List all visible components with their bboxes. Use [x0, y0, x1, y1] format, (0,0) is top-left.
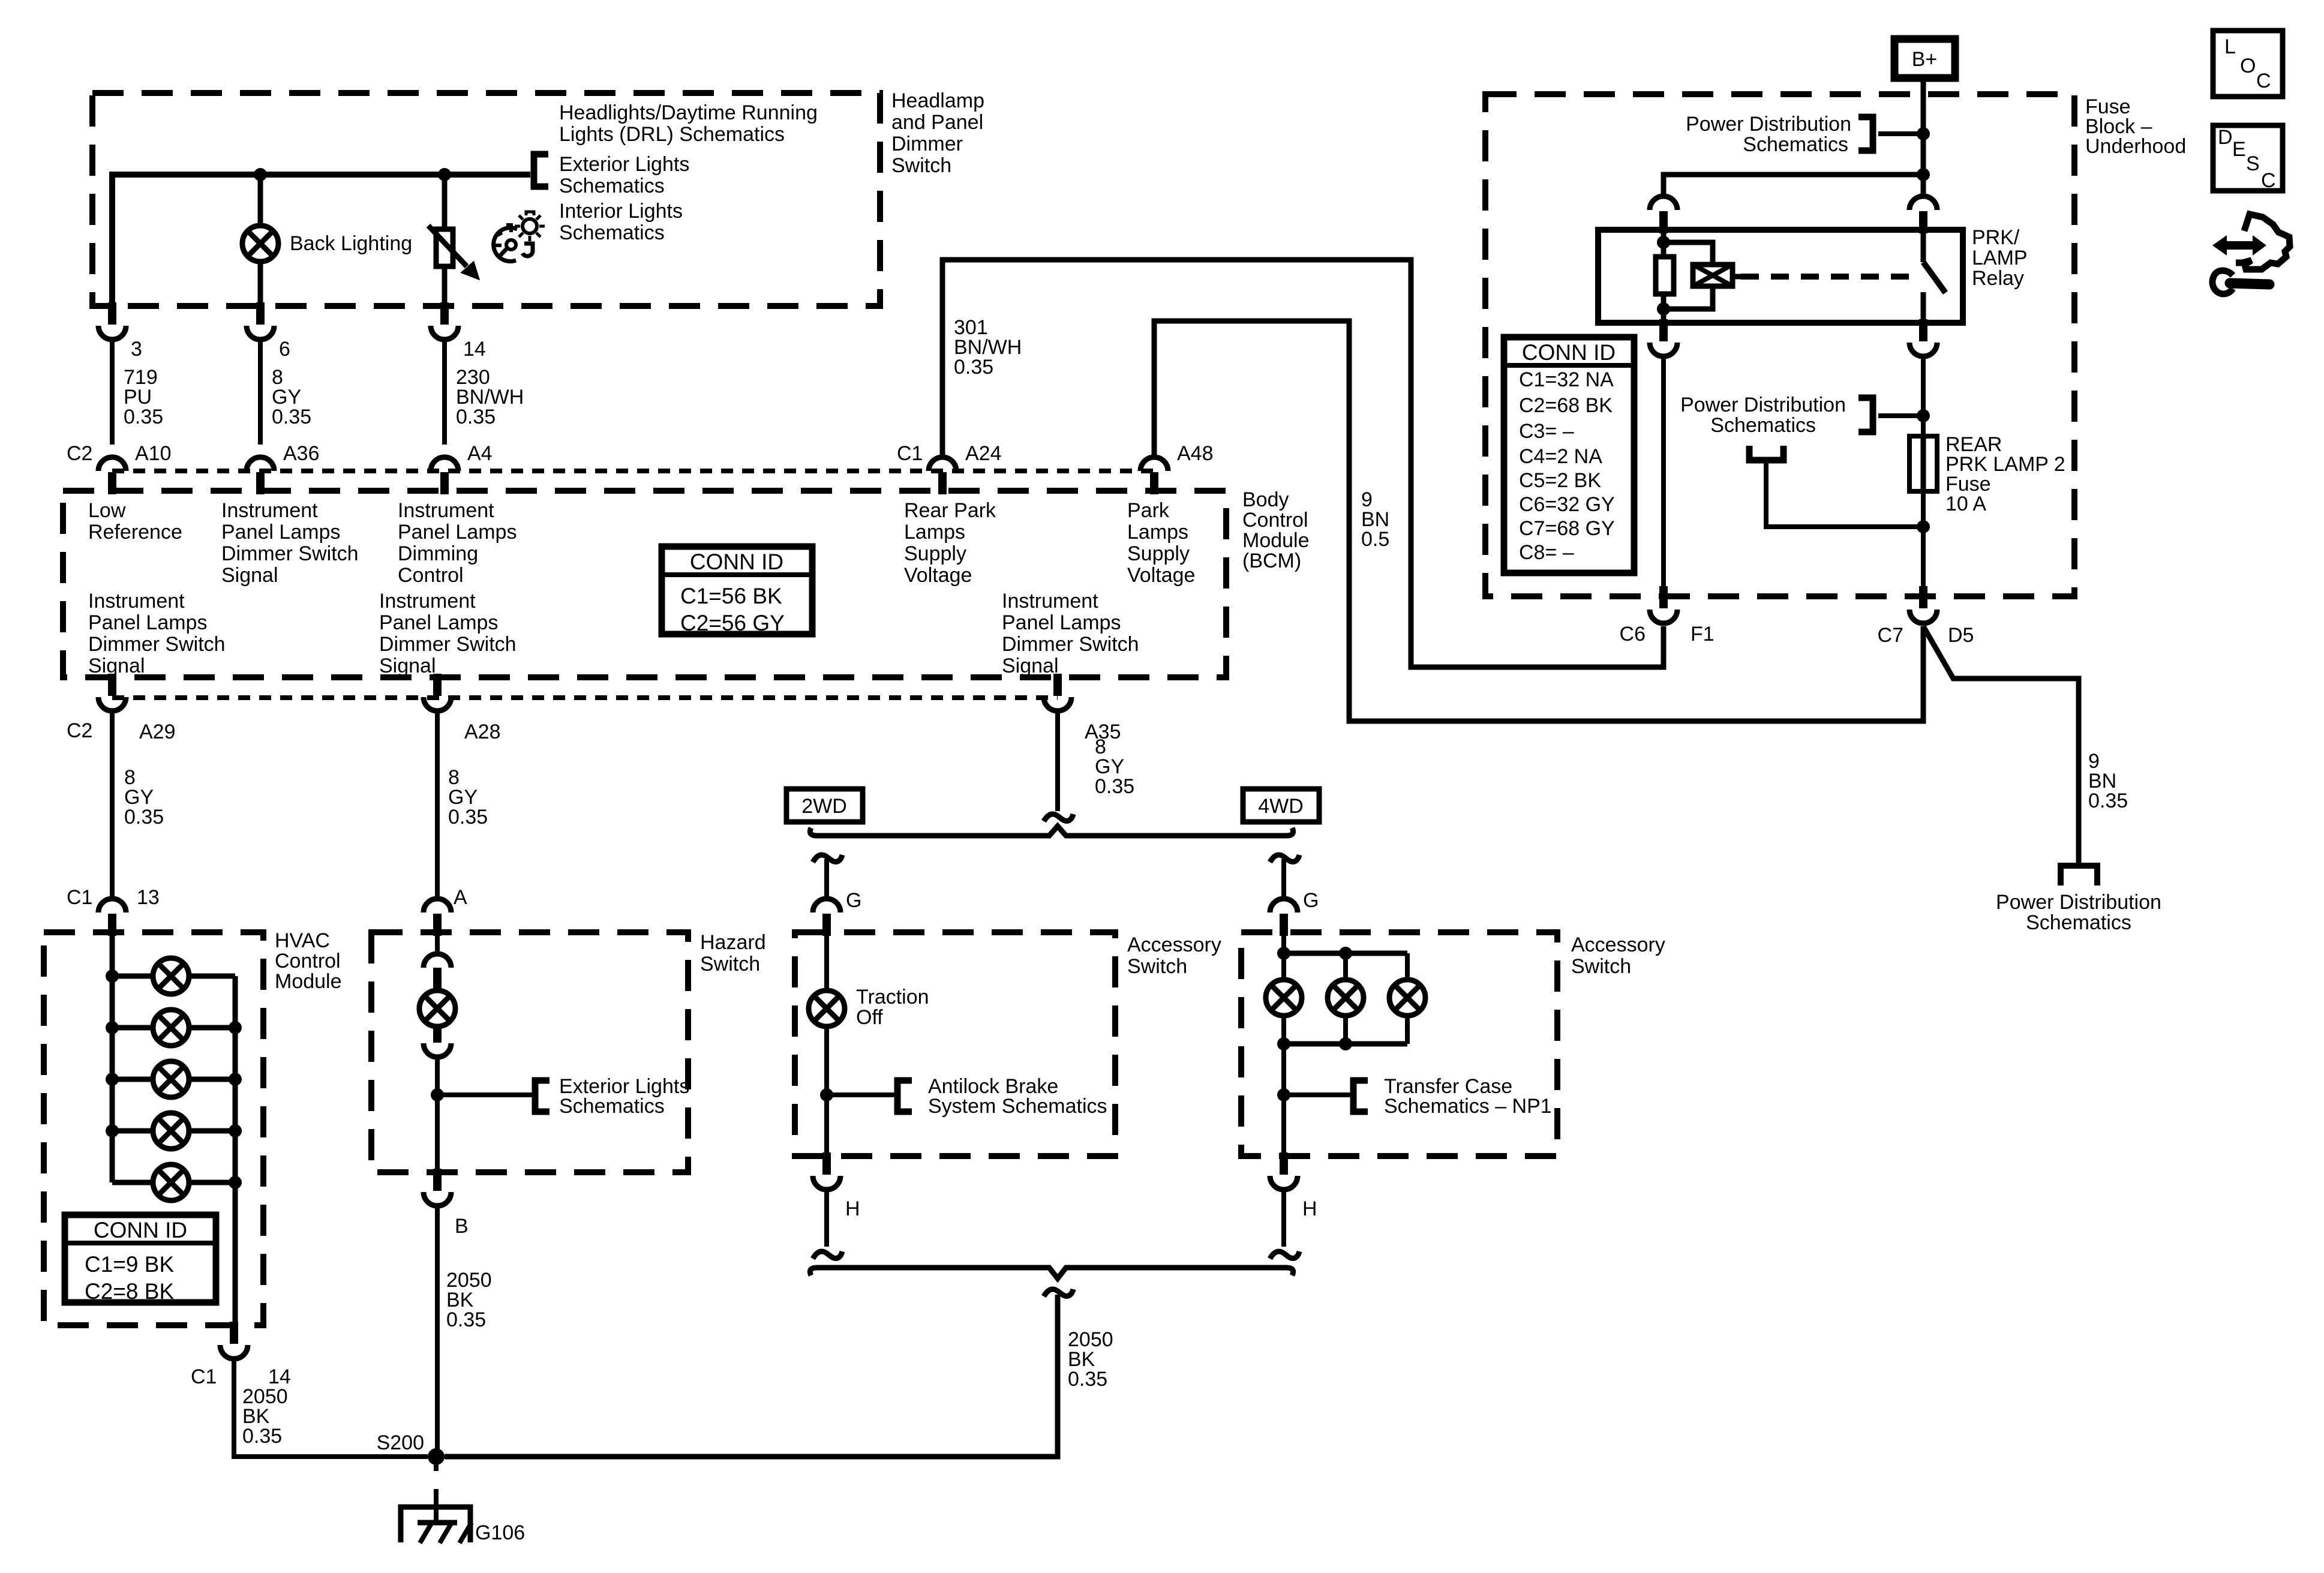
icon: instrument cluster gauge and bulb: [494, 228, 517, 262]
wire: 2WD branch to G: [824, 859, 829, 898]
relay box: PRK/LAMP Relay: [1598, 230, 1963, 323]
lamp: hazard switch backlight: [419, 990, 455, 1026]
ground G106: [401, 1507, 470, 1542]
node: HVAC left bus: [106, 1124, 119, 1137]
svg-text:C2=8 BK: C2=8 BK: [85, 1279, 174, 1304]
node: 4WD bottom bus a: [1277, 1037, 1290, 1050]
rheostat: panel dimming: [436, 229, 453, 266]
wire: tap to antilock bracket: [827, 1092, 894, 1097]
svg-text:Low: Low: [88, 499, 126, 522]
svg-text:0.35: 0.35: [2088, 789, 2128, 812]
svg-text:(BCM): (BCM): [1242, 550, 1301, 572]
svg-text:0.35: 0.35: [272, 406, 311, 428]
svg-text:Off: Off: [856, 1006, 883, 1029]
dashed box: Body Control Module (BCM): [63, 491, 1226, 677]
svg-text:Back Lighting: Back Lighting: [290, 232, 412, 255]
svg-text:Headlights/Daytime Running: Headlights/Daytime Running: [559, 101, 818, 124]
icon box: LOC: [2213, 31, 2283, 97]
svg-text:G106: G106: [475, 1521, 525, 1544]
svg-text:Headlamp: Headlamp: [891, 89, 984, 112]
wire: tap to power distribution bracket 1: [1878, 131, 1923, 136]
wire: HVAC left lamp bus: [110, 932, 115, 1182]
wire: 2050 BK (hazard B to S200): [435, 1208, 440, 1457]
node: power distribution tap 1: [1917, 127, 1930, 140]
svg-text:E: E: [2232, 138, 2246, 161]
svg-text:Voltage: Voltage: [1127, 564, 1195, 587]
svg-text:C1: C1: [897, 442, 923, 465]
svg-text:S200: S200: [377, 1431, 424, 1454]
svg-text:2WD: 2WD: [801, 795, 847, 818]
svg-text:A28: A28: [464, 721, 501, 743]
wire: HVAC lamp rung 2: [112, 1025, 153, 1031]
svg-text:O: O: [2240, 55, 2256, 77]
wire: 8 GY (A29 to HVAC C1-13): [110, 713, 115, 898]
wire: 4WD lamps top bus: [1281, 936, 1286, 980]
svg-text:PRK/: PRK/: [1972, 226, 2020, 249]
wire: HVAC lamp rung 1: [112, 974, 153, 979]
connector: dimmer switch pin 6: [256, 302, 265, 325]
lamp: Traction Off: [809, 990, 845, 1026]
connector: hazard bulb socket top: [424, 954, 451, 968]
wire: 9 BN 0.5 (A48 to fuse block C7): [1154, 321, 1923, 721]
svg-text:Schematics: Schematics: [1710, 414, 1816, 437]
connector: BCM terminal A48: [1150, 472, 1158, 494]
svg-text:Dimming: Dimming: [398, 542, 478, 565]
lamp: HVAC backlight 4: [153, 1113, 189, 1149]
svg-text:14: 14: [463, 338, 486, 361]
svg-text:Accessory: Accessory: [1571, 933, 1665, 956]
fork: to Power Distribution Schematics: [2061, 866, 2097, 885]
dashed box: Headlamp and Panel Dimmer Switch: [92, 93, 880, 306]
svg-text:CONN ID: CONN ID: [690, 550, 783, 574]
svg-text:Schematics: Schematics: [559, 221, 665, 244]
svg-text:Control: Control: [398, 564, 464, 587]
table: CONN ID (fuse block): [1504, 337, 1634, 573]
wire: traction off lamp feed: [824, 936, 829, 990]
node: HVAC right bus: [229, 1124, 242, 1137]
wire: HVAC lamp rung 4: [112, 1128, 153, 1134]
svg-text:G: G: [1303, 889, 1319, 912]
symbol: B+ battery feed: [1894, 39, 1955, 78]
wire: lamp to pin 6: [258, 262, 263, 306]
wire: relay coil internal top: [1661, 230, 1667, 257]
connector: BCM terminal A4: [440, 472, 449, 494]
node: 4WD bottom bus b: [1339, 1037, 1352, 1050]
svg-text:Switch: Switch: [700, 953, 760, 975]
svg-text:Dimmer Switch: Dimmer Switch: [88, 633, 226, 656]
svg-text:Schematics: Schematics: [559, 175, 665, 197]
switch: relay contact: [1921, 230, 1926, 262]
connector: accessory switch H (4WD): [1280, 1152, 1288, 1175]
svg-text:Supply: Supply: [904, 542, 966, 565]
off-page bracket: Power Distribution Schematics 3: [1749, 446, 1783, 460]
svg-text:A10: A10: [135, 442, 172, 465]
table: CONN ID (BCM): [662, 547, 812, 634]
svg-text:Panel Lamps: Panel Lamps: [379, 611, 498, 634]
svg-text:Panel Lamps: Panel Lamps: [1002, 611, 1121, 634]
svg-text:Control: Control: [1242, 509, 1308, 532]
wire: relay coil to C6: [1661, 358, 1666, 586]
wire: relay coil feed: [1664, 175, 1923, 196]
svg-text:C3= –: C3= –: [1519, 420, 1574, 443]
node: antilock brake tap: [820, 1088, 833, 1101]
svg-text:Dimmer: Dimmer: [891, 133, 963, 155]
svg-text:C1=9 BK: C1=9 BK: [85, 1252, 174, 1277]
svg-text:13: 13: [137, 886, 160, 909]
node: bus to back lighting lamp: [254, 168, 267, 181]
wire: rheostat to pin 14: [442, 266, 448, 306]
svg-text:Interior Lights: Interior Lights: [559, 200, 683, 223]
connector: relay switch terminal top: [1919, 211, 1927, 233]
svg-text:0.35: 0.35: [446, 1308, 486, 1331]
node: HVAC left bus: [106, 1021, 119, 1034]
node: HVAC right bus: [229, 1176, 242, 1189]
svg-text:CONN ID: CONN ID: [1522, 340, 1616, 365]
svg-text:HVAC: HVAC: [275, 929, 330, 952]
svg-text:Dimmer Switch: Dimmer Switch: [1002, 633, 1139, 656]
icon: navigate arrows and wrench: [2212, 235, 2266, 256]
wire: tap to power distribution bracket 2: [1878, 413, 1923, 418]
svg-text:Panel Lamps: Panel Lamps: [398, 521, 517, 544]
svg-text:0.5: 0.5: [1361, 528, 1389, 551]
resistor: relay coil suppression: [1656, 257, 1674, 294]
svg-text:A24: A24: [965, 442, 1002, 465]
svg-text:Power Distribution: Power Distribution: [1686, 113, 1851, 136]
svg-text:Signal: Signal: [88, 655, 145, 677]
node: 4WD top bus a: [1277, 947, 1290, 960]
lamp: HVAC backlight 1: [153, 958, 189, 994]
wire: hazard lamp feed: [435, 936, 440, 955]
node: transfer case tap: [1277, 1088, 1290, 1101]
svg-text:Dimmer Switch: Dimmer Switch: [221, 542, 359, 565]
dashed actuator link: [1741, 274, 1917, 280]
off-page bracket: Power Distribution Schematics 2: [1858, 398, 1873, 432]
connector: BCM terminal A24: [938, 472, 947, 494]
wire: H to merge brace (2WD): [824, 1191, 829, 1247]
svg-text:C: C: [2256, 70, 2271, 92]
option split brace: [810, 826, 1293, 836]
svg-text:0.35: 0.35: [1068, 1368, 1107, 1391]
wire: solenoid loop: [1664, 242, 1713, 265]
off-page bracket: Exterior Lights Schematics: [534, 154, 548, 187]
wire: 301 BN/WH (A24 to PRK/LAMP relay coil): [942, 260, 1664, 667]
svg-text:Schematics: Schematics: [559, 1095, 665, 1118]
svg-text:6: 6: [279, 338, 290, 361]
svg-text:Schematics – NP1: Schematics – NP1: [1384, 1095, 1552, 1118]
svg-text:10 A: 10 A: [1945, 493, 1986, 515]
dashed box: Fuse Block - Underhood: [1485, 94, 2074, 596]
dotted connector line C1/C2 top: [112, 469, 1154, 473]
svg-text:C2=68 BK: C2=68 BK: [1519, 394, 1613, 417]
connector: BCM terminal A10: [108, 472, 116, 494]
wire: relay switch to fuse: [1921, 358, 1926, 436]
lamp: 4WD indicator 2: [1328, 980, 1364, 1016]
off-page bracket: Antilock Brake System Schematics: [897, 1080, 912, 1112]
svg-text:C6=32 GY: C6=32 GY: [1519, 493, 1615, 516]
wire: tap to transfer case bracket: [1284, 1092, 1350, 1097]
node: power distribution tap 2: [1917, 409, 1930, 422]
svg-text:Reference: Reference: [88, 521, 182, 544]
svg-text:B: B: [455, 1215, 469, 1238]
wire: C7 branch to power distribution: [1923, 626, 2079, 866]
node: fuse output tap: [1917, 520, 1930, 533]
wire: bracket 3 to fuse output: [1766, 460, 1923, 527]
svg-text:Relay: Relay: [1972, 267, 2024, 290]
dashed box: Accessory Switch (4WD): [1241, 932, 1557, 1156]
connector: accessory switch G (2WD): [822, 914, 831, 936]
svg-text:Exterior Lights: Exterior Lights: [559, 153, 689, 176]
wire: HVAC right lamp bus: [233, 976, 238, 1322]
node: relay coil feed tap: [1917, 168, 1930, 181]
node: relay coil node top: [1657, 236, 1670, 249]
svg-text:Instrument: Instrument: [88, 590, 185, 613]
wire: rheostat drop: [442, 175, 448, 229]
connector: HVAC C1 pin 13: [108, 914, 116, 936]
tag box: 2WD: [786, 789, 863, 822]
wire: 2050 BK (HVAC to S200): [234, 1361, 428, 1457]
wire: 8 GY (A28 to hazard switch A): [435, 713, 440, 898]
squiggle: 4WD branch: [1270, 855, 1299, 862]
connector: BCM terminal A36: [256, 472, 265, 494]
svg-text:Park: Park: [1127, 499, 1170, 522]
svg-text:Voltage: Voltage: [904, 564, 972, 587]
wire: dimmer switch internal bus: [112, 175, 530, 306]
wire: solenoid actuator stub: [1733, 274, 1741, 280]
wire: 2050 BK (brace to S200): [445, 1295, 1058, 1457]
fuse: REAR PRK LAMP 2 10A: [1909, 436, 1937, 491]
wire: circuit 8 GY: [258, 341, 263, 445]
svg-text:C8= –: C8= –: [1519, 541, 1574, 564]
connector: hazard switch terminal A: [433, 914, 442, 936]
svg-text:0.35: 0.35: [954, 356, 993, 379]
connector: dimmer switch pin 14: [440, 302, 449, 325]
wire: relay coil internal bottom: [1661, 294, 1667, 323]
connector: fuse block C6 / relay F1: [1659, 586, 1668, 608]
svg-text:C2=56 GY: C2=56 GY: [680, 611, 785, 635]
svg-text:C4=2 NA: C4=2 NA: [1519, 445, 1602, 468]
tag box: 4WD: [1243, 789, 1319, 822]
svg-text:A4: A4: [467, 442, 493, 465]
lamp: HVAC backlight 2: [153, 1010, 189, 1046]
svg-text:Panel Lamps: Panel Lamps: [221, 521, 340, 544]
svg-text:Dimmer Switch: Dimmer Switch: [379, 633, 517, 656]
svg-text:Module: Module: [1242, 529, 1310, 552]
svg-text:D: D: [2218, 126, 2233, 149]
squiggle: H exit (4WD): [1270, 1251, 1299, 1259]
svg-text:Signal: Signal: [379, 655, 436, 677]
svg-text:LAMP: LAMP: [1972, 247, 2028, 269]
svg-text:G: G: [846, 889, 861, 912]
squiggle: 2WD branch: [813, 855, 842, 862]
connector: BCM terminal A35: [1053, 674, 1062, 696]
connector: hazard terminal B: [433, 1169, 442, 1191]
squiggle: H exit (2WD): [813, 1251, 842, 1259]
wire: hazard lamp return: [435, 1056, 440, 1169]
connector: accessory switch H (2WD): [822, 1152, 831, 1175]
connector: BCM terminal A28: [433, 674, 442, 696]
svg-text:0.35: 0.35: [124, 806, 164, 828]
svg-text:CONN ID: CONN ID: [94, 1218, 187, 1242]
dashed box: HVAC Control Module: [44, 932, 263, 1325]
svg-text:Schematics: Schematics: [1743, 133, 1848, 156]
wire: H to merge brace (4WD): [1281, 1191, 1286, 1247]
svg-text:and Panel: and Panel: [891, 111, 983, 134]
svg-text:H: H: [845, 1197, 860, 1220]
svg-text:A29: A29: [139, 721, 176, 743]
connector: relay coil terminal top: [1659, 211, 1668, 233]
node: HVAC right bus: [229, 1073, 242, 1086]
icon box: DESC: [2213, 125, 2283, 191]
svg-text:Instrument: Instrument: [1002, 590, 1098, 613]
wire: HVAC lamp rung 5: [112, 1180, 153, 1185]
node: HVAC left bus: [106, 1073, 119, 1086]
lamp: 4WD indicator 3: [1389, 980, 1425, 1016]
svg-text:System Schematics: System Schematics: [928, 1095, 1107, 1118]
svg-text:0.35: 0.35: [242, 1425, 282, 1448]
svg-text:0.35: 0.35: [448, 806, 488, 828]
svg-text:C2: C2: [67, 719, 92, 742]
svg-text:Instrument: Instrument: [398, 499, 494, 522]
wire: circuit 230 BN/WH: [442, 341, 447, 445]
wire: S200 to ground stub: [434, 1457, 439, 1471]
node: HVAC left bus: [106, 969, 119, 983]
svg-text:Power Distribution: Power Distribution: [1680, 394, 1846, 416]
connector: fuse block C7 / D5: [1919, 586, 1927, 608]
splice squiggle at A35 wire end: [1044, 814, 1073, 821]
dashed box: Hazard Switch: [371, 932, 688, 1172]
svg-text:C1=32 NA: C1=32 NA: [1519, 368, 1614, 391]
svg-text:Rear Park: Rear Park: [904, 499, 996, 522]
table: CONN ID (HVAC): [65, 1215, 216, 1302]
svg-text:Body: Body: [1242, 488, 1289, 511]
wire: HVAC lamp rung 3: [112, 1077, 153, 1082]
svg-text:B+: B+: [1912, 48, 1938, 71]
svg-text:Traction: Traction: [856, 986, 929, 1008]
svg-text:L: L: [2224, 35, 2236, 58]
svg-text:Switch: Switch: [1571, 955, 1631, 978]
svg-text:C6: C6: [1620, 623, 1646, 646]
off-page bracket: Exterior Lights Schematics (hazard): [535, 1080, 550, 1112]
svg-text:C1: C1: [67, 886, 92, 909]
node: hazard exterior-lights tap: [431, 1088, 444, 1101]
svg-text:Power Distribution: Power Distribution: [1996, 891, 2161, 914]
wire: traction off lamp return: [824, 1026, 829, 1152]
lamp: HVAC backlight 3: [153, 1061, 189, 1097]
svg-text:0.35: 0.35: [124, 406, 163, 428]
splice S200: [428, 1448, 445, 1465]
svg-text:C1=56 BK: C1=56 BK: [680, 584, 782, 608]
svg-text:A: A: [454, 886, 467, 909]
svg-text:Lights (DRL) Schematics: Lights (DRL) Schematics: [559, 123, 785, 146]
svg-text:Underhood: Underhood: [2085, 135, 2186, 158]
svg-text:0.35: 0.35: [1095, 775, 1134, 798]
lamp: HVAC backlight 5: [153, 1164, 189, 1200]
svg-text:D5: D5: [1948, 624, 1974, 647]
solenoid: relay coil: [1693, 265, 1733, 286]
svg-text:C: C: [2261, 169, 2276, 192]
wire: 8 GY (A35 to option brace): [1055, 713, 1060, 811]
svg-text:F1: F1: [1691, 623, 1715, 646]
option merge brace: [810, 1268, 1293, 1278]
svg-text:A36: A36: [283, 442, 320, 465]
svg-text:Accessory: Accessory: [1127, 933, 1221, 956]
svg-text:H: H: [1302, 1197, 1317, 1220]
svg-text:3: 3: [131, 338, 142, 361]
svg-text:C7=68 GY: C7=68 GY: [1519, 517, 1615, 540]
off-page bracket: Transfer Case Schematics - NP1: [1353, 1080, 1368, 1112]
svg-text:Module: Module: [275, 970, 342, 993]
wire: 4WD branch to G: [1281, 859, 1286, 898]
wire: lamp drop: [258, 175, 263, 226]
wire: fuse output: [1921, 491, 1926, 586]
node: bus to dimming rheostat: [438, 168, 451, 181]
svg-text:Control: Control: [275, 950, 341, 972]
wire: B+ feed into fuse block: [1921, 78, 1926, 197]
lamp: Back Lighting: [242, 226, 278, 262]
svg-text:Lamps: Lamps: [904, 521, 965, 544]
dashed box: Accessory Switch (Traction Off): [795, 932, 1115, 1156]
svg-text:Panel Lamps: Panel Lamps: [88, 611, 207, 634]
svg-text:Signal: Signal: [1002, 655, 1059, 677]
connector: accessory switch G (4WD): [1280, 914, 1288, 936]
connector: dimmer switch pin 3: [108, 302, 116, 325]
node: relay coil node bottom: [1657, 302, 1670, 316]
svg-text:C5=2 BK: C5=2 BK: [1519, 469, 1601, 492]
connector: hazard bulb socket bottom: [433, 1026, 442, 1043]
svg-text:Schematics: Schematics: [2026, 911, 2131, 934]
lamp: 4WD indicator 1: [1266, 980, 1302, 1016]
svg-text:C1: C1: [191, 1365, 217, 1388]
dotted connector line C1/C2 bottom: [112, 695, 1058, 700]
svg-text:4WD: 4WD: [1258, 795, 1304, 818]
svg-text:Switch: Switch: [1127, 955, 1187, 978]
svg-text:Switch: Switch: [891, 154, 951, 177]
connector: BCM terminal A29: [108, 674, 116, 696]
svg-text:C2: C2: [67, 442, 92, 465]
svg-text:A48: A48: [1177, 442, 1214, 465]
wire: circuit 719 PU: [110, 341, 115, 445]
node: HVAC right bus: [229, 1021, 242, 1034]
svg-text:Lamps: Lamps: [1127, 521, 1188, 544]
node: 4WD top bus b: [1339, 947, 1352, 960]
connector: relay switch terminal bottom: [1919, 319, 1927, 341]
wire: ground lead: [434, 1489, 439, 1523]
svg-text:S: S: [2246, 152, 2260, 175]
connector: HVAC C1 pin 14: [230, 1322, 238, 1344]
svg-text:Instrument: Instrument: [379, 590, 476, 613]
svg-text:Supply: Supply: [1127, 542, 1190, 565]
svg-text:0.35: 0.35: [456, 406, 496, 428]
svg-text:Signal: Signal: [221, 564, 278, 587]
wire: tap to exterior lights bracket: [437, 1092, 532, 1097]
svg-text:Hazard: Hazard: [700, 931, 766, 954]
off-page bracket: Power Distribution Schematics 1: [1858, 117, 1873, 151]
svg-text:Instrument: Instrument: [221, 499, 318, 522]
squiggle: merged wire: [1044, 1289, 1073, 1296]
svg-text:C7: C7: [1878, 624, 1903, 647]
wire: 4WD lamps bottom bus: [1343, 1016, 1348, 1044]
connector: relay coil terminal bottom: [1659, 319, 1668, 341]
